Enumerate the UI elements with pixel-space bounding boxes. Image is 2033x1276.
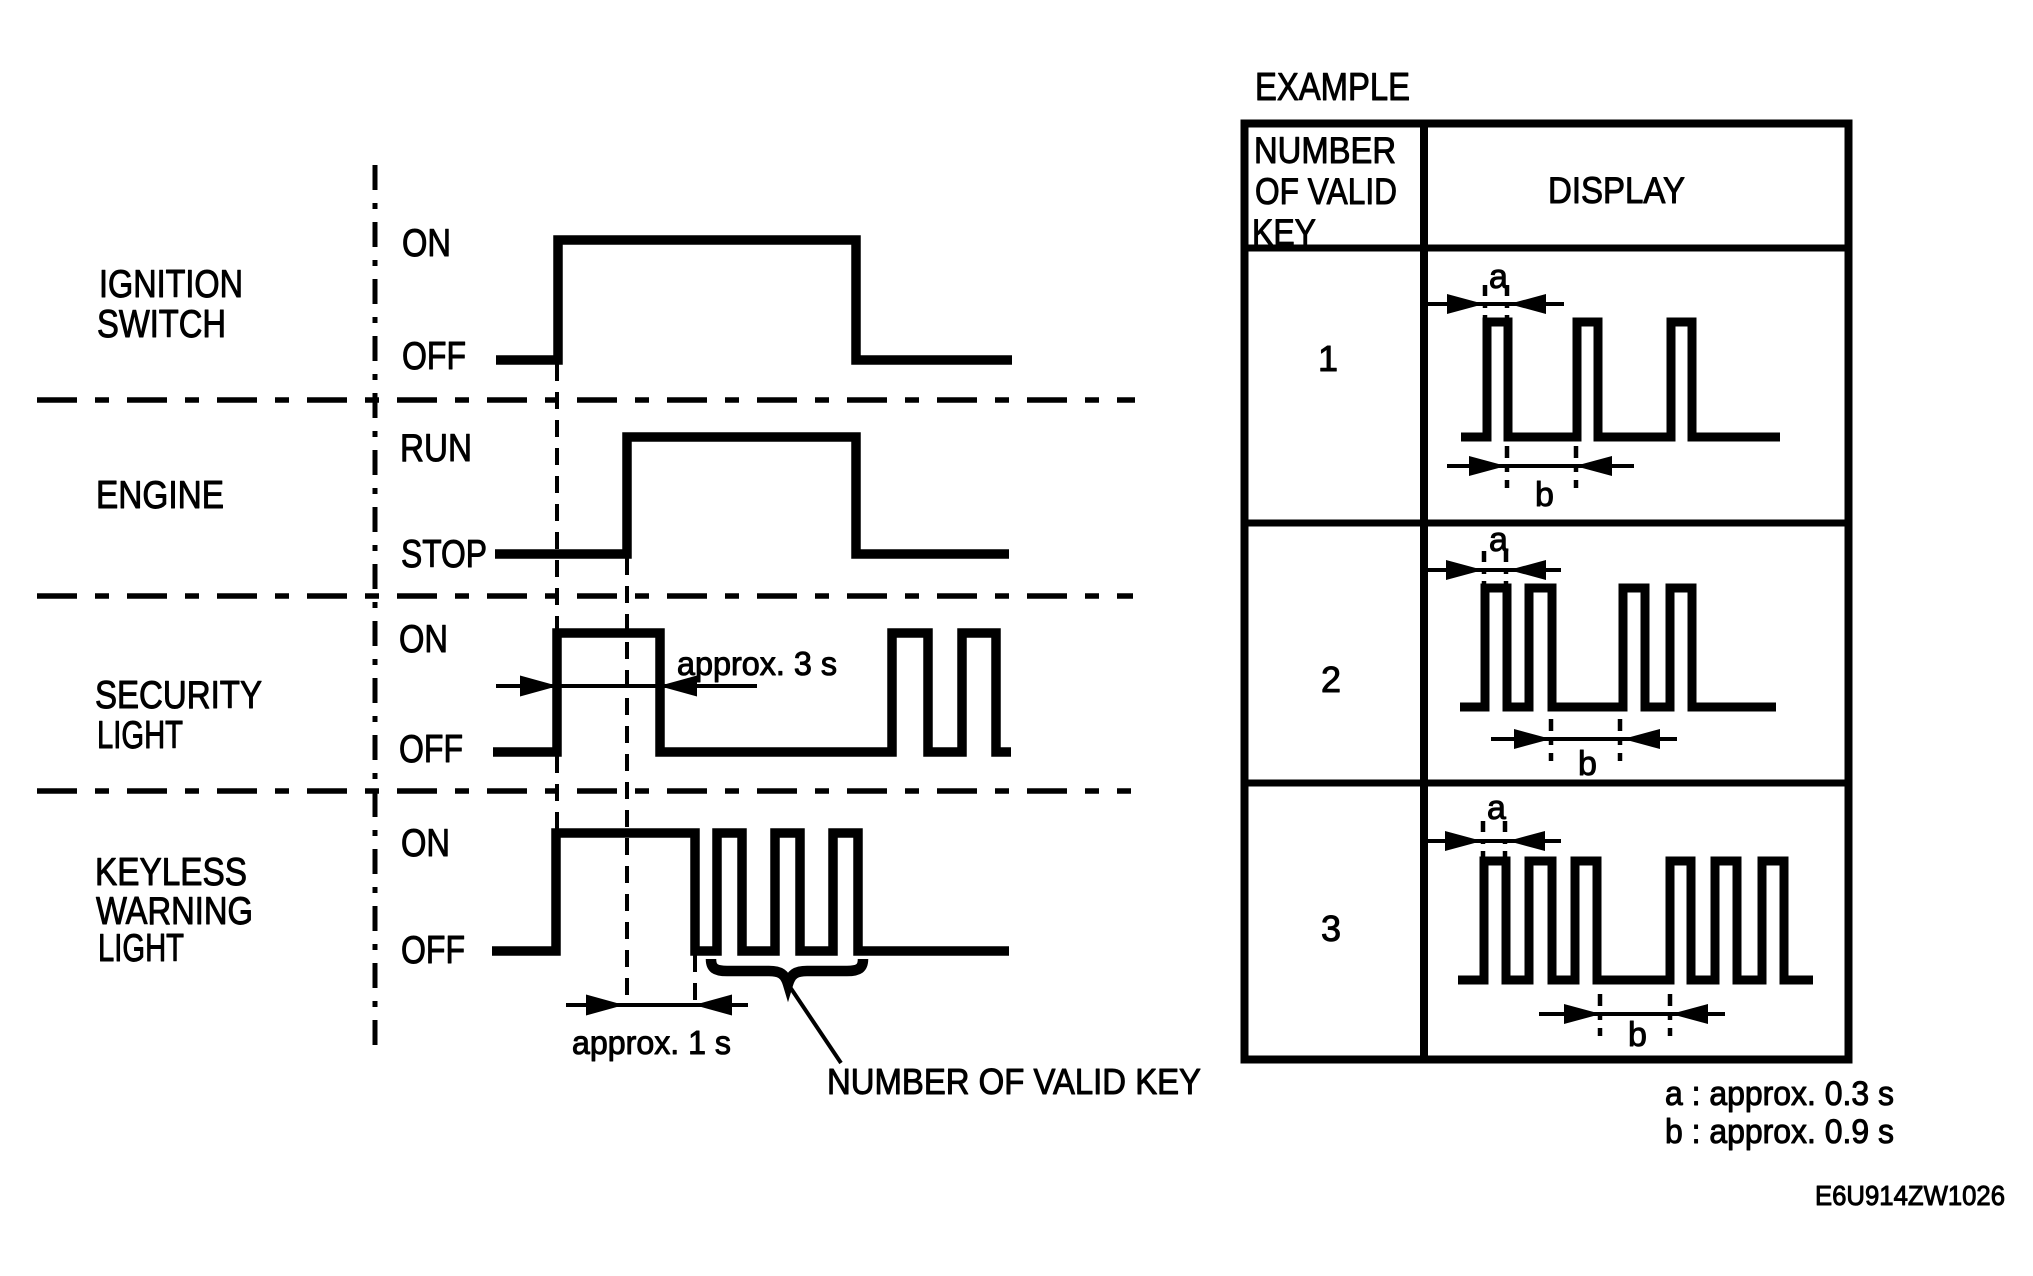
svg-text:3: 3 [1321, 908, 1341, 949]
svg-text:OFF: OFF [402, 335, 466, 378]
dashed guide line at keyless pulse end [693, 955, 697, 1003]
svg-text:E6U914ZW1026: E6U914ZW1026 [1815, 1180, 2005, 1211]
approx 1 s dimension arrow [566, 995, 748, 1016]
axis dash-dot vertical line [373, 165, 378, 1047]
curly brace under keyless pulses [711, 959, 863, 984]
label SECURITY LIGHT [95, 674, 262, 757]
svg-text:OFF: OFF [399, 728, 463, 771]
svg-text:b : approx. 0.9 s: b : approx. 0.9 s [1665, 1113, 1894, 1151]
svg-text:1: 1 [1318, 338, 1338, 379]
row 2 waveform [1460, 588, 1776, 707]
dashed guide line at engine-start [625, 558, 629, 1003]
table outer border [1245, 124, 1849, 1060]
engine waveform [495, 437, 1009, 554]
row 1 waveform [1461, 322, 1780, 437]
header NUMBER OF VALID KEY [1252, 130, 1397, 253]
label KEYLESS WARNING LIGHT [95, 851, 253, 970]
row 3 dimension a [1423, 789, 1561, 857]
separator dash-dot line 2 [37, 593, 1133, 599]
svg-text:ENGINE: ENGINE [96, 474, 224, 517]
row 3 dimension b [1539, 994, 1725, 1054]
svg-text:LIGHT: LIGHT [97, 714, 183, 757]
svg-text:approx. 3 s: approx. 3 s [677, 645, 837, 682]
svg-text:b: b [1535, 476, 1554, 514]
svg-text:NUMBER: NUMBER [1254, 130, 1396, 171]
svg-text:NUMBER OF VALID KEY: NUMBER OF VALID KEY [827, 1061, 1201, 1102]
security light waveform [493, 633, 1011, 752]
svg-text:LIGHT: LIGHT [98, 927, 184, 970]
svg-text:2: 2 [1321, 659, 1341, 700]
svg-text:b: b [1628, 1016, 1647, 1054]
svg-text:EXAMPLE: EXAMPLE [1255, 66, 1410, 109]
leader line from brace [790, 987, 841, 1063]
keyless warning light waveform [492, 833, 1009, 951]
row 3 waveform [1458, 861, 1813, 980]
svg-text:OF VALID: OF VALID [1255, 171, 1397, 212]
svg-text:STOP: STOP [401, 533, 487, 576]
svg-text:KEYLESS: KEYLESS [95, 851, 247, 894]
dashed guide line at ignition-on [555, 364, 559, 829]
svg-text:ON: ON [402, 222, 451, 265]
svg-text:OFF: OFF [401, 929, 465, 972]
svg-text:approx. 1 s: approx. 1 s [572, 1024, 731, 1061]
table column divider [1420, 123, 1428, 1060]
svg-text:RUN: RUN [400, 427, 472, 470]
approx 3 s dimension arrow [496, 676, 757, 697]
label IGNITION SWITCH [97, 263, 243, 346]
table row divider 1 [1241, 520, 1849, 527]
ignition switch waveform [496, 240, 1012, 360]
svg-text:DISPLAY: DISPLAY [1548, 170, 1685, 211]
svg-text:a : approx. 0.3 s: a : approx. 0.3 s [1665, 1075, 1894, 1113]
separator dash-dot line 1 [37, 397, 1135, 403]
row 1 dimension a [1426, 258, 1564, 321]
row 1 dimension b [1447, 446, 1634, 514]
svg-text:IGNITION: IGNITION [99, 263, 243, 306]
svg-text:ON: ON [399, 618, 448, 661]
row 2 dimension b [1491, 719, 1677, 783]
svg-text:b: b [1578, 745, 1597, 783]
svg-text:ON: ON [401, 822, 450, 865]
table header bottom border [1241, 245, 1849, 252]
svg-text:SWITCH: SWITCH [97, 303, 226, 346]
row 2 dimension a [1425, 521, 1561, 587]
svg-text:SECURITY: SECURITY [95, 674, 262, 717]
svg-text:KEY: KEY [1252, 212, 1316, 253]
table row divider 2 [1241, 780, 1849, 787]
separator dash-dot line 3 [37, 788, 1131, 794]
